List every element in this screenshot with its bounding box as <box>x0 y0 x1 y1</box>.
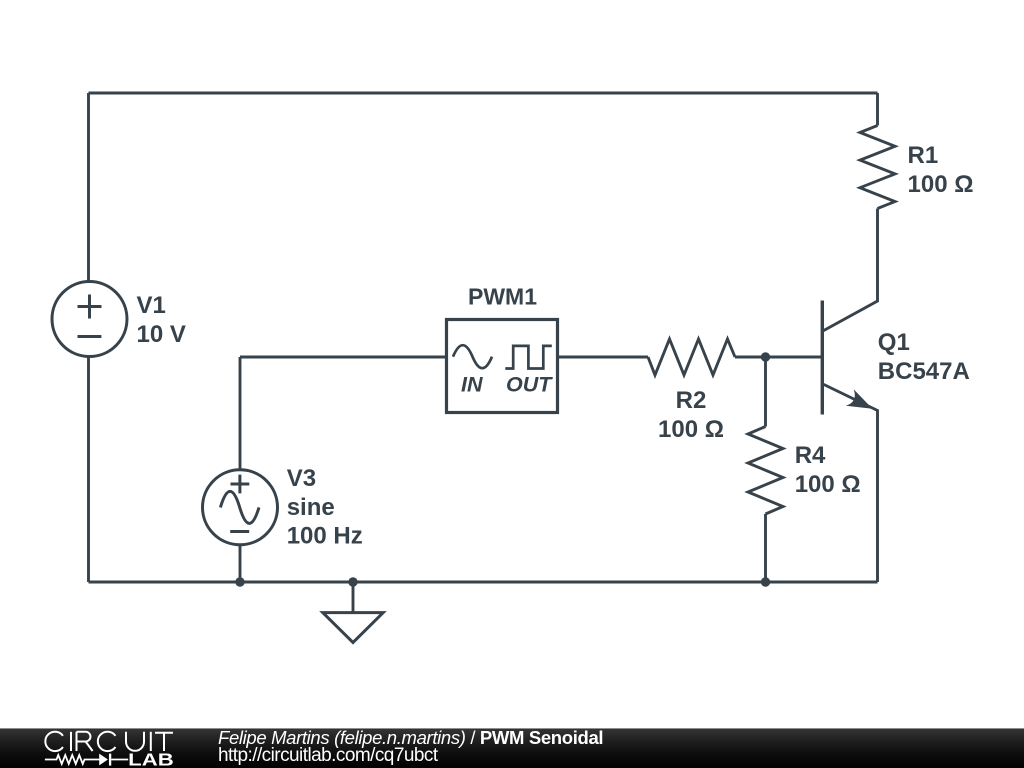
svg-text:IN: IN <box>461 373 483 397</box>
svg-text:R2: R2 <box>676 387 707 414</box>
svg-text:100 Ω: 100 Ω <box>658 416 724 443</box>
svg-text:V3: V3 <box>287 465 316 492</box>
svg-text:100 Ω: 100 Ω <box>908 171 974 198</box>
svg-text:V1: V1 <box>137 292 166 319</box>
svg-text:100 Hz: 100 Hz <box>287 523 363 550</box>
svg-text:sine: sine <box>287 494 335 521</box>
svg-text:OUT: OUT <box>506 373 553 397</box>
svg-text:PWM1: PWM1 <box>468 284 537 310</box>
svg-text:Q1: Q1 <box>878 329 910 356</box>
svg-text:R1: R1 <box>908 142 939 169</box>
svg-text:10 V: 10 V <box>137 321 186 348</box>
svg-text:BC547A: BC547A <box>878 358 970 385</box>
svg-text:R4: R4 <box>795 442 826 469</box>
svg-text:LAB: LAB <box>128 749 174 768</box>
svg-text:100 Ω: 100 Ω <box>795 471 861 498</box>
